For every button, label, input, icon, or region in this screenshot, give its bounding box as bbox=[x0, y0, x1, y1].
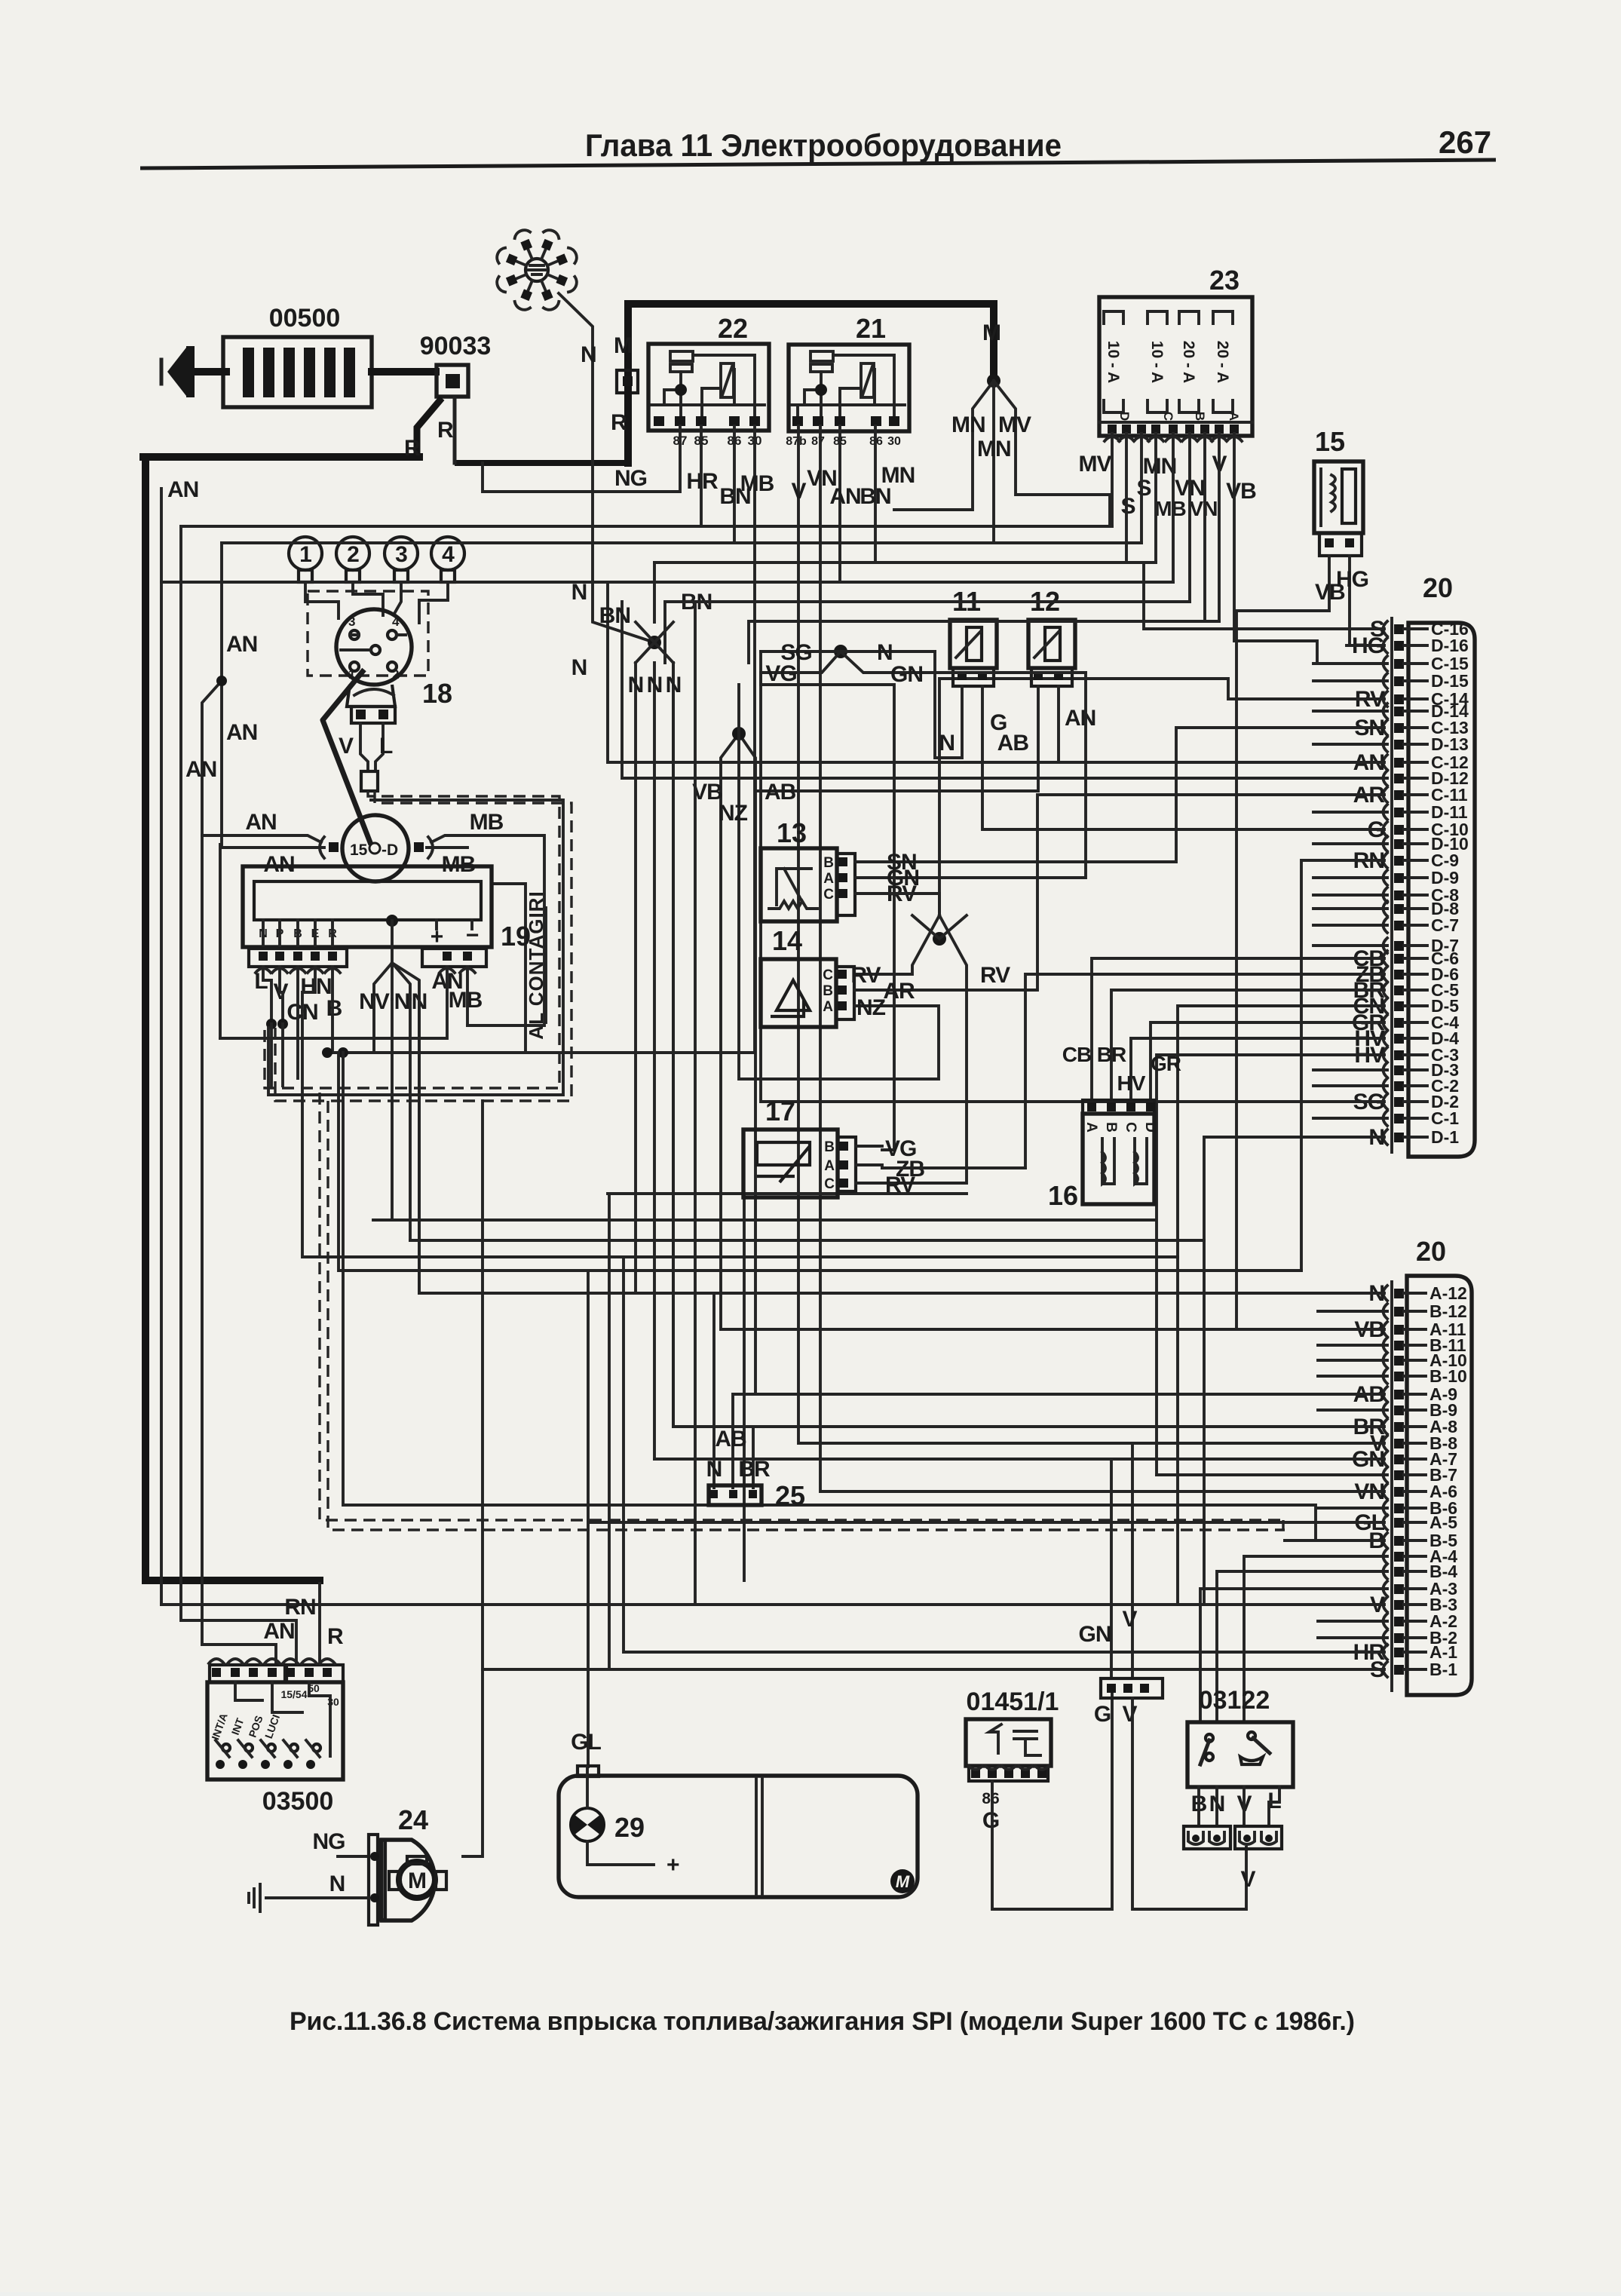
svg-text:B: B bbox=[823, 855, 834, 871]
pin B-9 bbox=[1394, 1405, 1404, 1415]
svg-text:15: 15 bbox=[350, 841, 368, 859]
svg-text:A: A bbox=[824, 1158, 835, 1174]
node BN cross bbox=[648, 636, 661, 649]
svg-text:CB: CB bbox=[1062, 1043, 1091, 1066]
pin A-2 bbox=[1394, 1617, 1404, 1626]
svg-text:90033: 90033 bbox=[420, 332, 492, 360]
pin C-7 bbox=[1394, 921, 1404, 930]
wire V to B-8 bbox=[798, 426, 1384, 1678]
wire N from cap bbox=[559, 293, 654, 642]
svg-text:D-13: D-13 bbox=[1431, 734, 1469, 754]
node RV cross junction bbox=[933, 932, 946, 946]
pin B-3 bbox=[1394, 1600, 1404, 1610]
svg-text:03122: 03122 bbox=[1199, 1686, 1270, 1715]
pin A-8 bbox=[1394, 1422, 1404, 1432]
pin A-9 bbox=[1394, 1390, 1404, 1399]
wire R heavy diagonal bbox=[417, 398, 442, 455]
svg-text:3: 3 bbox=[395, 542, 407, 567]
wire HG to D-16 bbox=[1347, 644, 1384, 647]
svg-text:17: 17 bbox=[765, 1096, 795, 1127]
svg-text:14: 14 bbox=[772, 925, 802, 956]
svg-text:VB: VB bbox=[1315, 580, 1345, 605]
ECU 19 loop box bbox=[220, 845, 526, 1053]
svg-text:N: N bbox=[706, 1457, 722, 1482]
pump symbol bbox=[571, 1808, 604, 1841]
svg-text:L: L bbox=[379, 734, 393, 759]
inline connector 3pin bbox=[1101, 1678, 1163, 1698]
svg-text:MB: MB bbox=[449, 988, 483, 1013]
pin B-11 bbox=[1394, 1341, 1404, 1350]
svg-text:C-7: C-7 bbox=[1431, 915, 1459, 935]
svg-text:16: 16 bbox=[1048, 1180, 1078, 1211]
svg-text:B-1: B-1 bbox=[1429, 1660, 1457, 1679]
fuse output wires bbox=[1111, 434, 1114, 526]
ground for motor bbox=[266, 1896, 369, 1899]
wire G from 11 bbox=[981, 686, 984, 829]
svg-text:30: 30 bbox=[887, 435, 901, 448]
wire HV to D-4 bbox=[1131, 1038, 1384, 1100]
page header rule bbox=[140, 160, 1496, 168]
svg-text:AN: AN bbox=[167, 477, 198, 502]
svg-text:N: N bbox=[394, 989, 410, 1014]
svg-text:MB: MB bbox=[1154, 497, 1186, 520]
pin D-6 bbox=[1394, 970, 1404, 979]
wire MN branch2 bbox=[992, 381, 995, 543]
pin C-3 bbox=[1394, 1050, 1404, 1060]
svg-text:B-10: B-10 bbox=[1429, 1366, 1467, 1386]
wire AN from 12 bbox=[1057, 686, 1060, 762]
03122 connectors bbox=[1184, 1826, 1230, 1849]
pin D-16 bbox=[1394, 641, 1404, 651]
svg-text:V: V bbox=[1240, 1867, 1255, 1892]
wire AN lower bbox=[222, 846, 324, 849]
svg-text:25: 25 bbox=[775, 1480, 805, 1511]
harness row 772 bbox=[161, 426, 1173, 582]
pin D-8 bbox=[1394, 904, 1404, 914]
wire GR to C-4 bbox=[1151, 1022, 1384, 1100]
pin A-4 bbox=[1394, 1552, 1404, 1562]
wire B to B-5 bbox=[1285, 1539, 1384, 1542]
shield solid border bbox=[268, 800, 563, 1095]
svg-text:M: M bbox=[408, 1868, 426, 1893]
svg-text:15/54: 15/54 bbox=[280, 1688, 307, 1700]
fuel tank unit 29 bbox=[559, 1776, 918, 1897]
pin A-12 bbox=[1394, 1289, 1404, 1298]
wire CN to D-5 bbox=[302, 1006, 1384, 1257]
svg-text:M: M bbox=[982, 320, 1000, 345]
svg-text:V: V bbox=[1122, 1607, 1137, 1632]
pin B-1 bbox=[1394, 1665, 1404, 1675]
pin A-6 bbox=[1394, 1487, 1404, 1497]
svg-text:VB: VB bbox=[1226, 479, 1256, 504]
pin C-12 bbox=[1394, 758, 1404, 768]
svg-text:INT: INT bbox=[229, 1716, 247, 1737]
wire AN to C-12 bbox=[608, 582, 1384, 762]
wire pump to 90033 bbox=[372, 368, 436, 376]
svg-text:N: N bbox=[939, 731, 955, 756]
M badge bbox=[890, 1869, 915, 1893]
harness row 720 bbox=[222, 541, 1141, 544]
wire AN left harness bbox=[160, 489, 163, 1605]
svg-text:NG: NG bbox=[614, 466, 647, 491]
wire GN to A-7 bbox=[654, 1459, 1384, 1678]
wire V net bbox=[1132, 1698, 1246, 1909]
pin C-16 bbox=[1394, 624, 1404, 634]
svg-text:C: C bbox=[824, 1176, 835, 1192]
pin D-1 bbox=[1394, 1133, 1404, 1142]
wire SN to C-13 bbox=[881, 728, 1384, 862]
svg-text:N: N bbox=[666, 673, 682, 697]
connector 90033 bbox=[437, 365, 468, 397]
wire BN from relay21-86 bbox=[654, 426, 875, 563]
wire G to C-10 bbox=[983, 828, 1384, 831]
svg-text:B: B bbox=[1103, 1122, 1119, 1133]
svg-text:24: 24 bbox=[398, 1804, 428, 1835]
svg-text:2: 2 bbox=[347, 542, 359, 567]
pin C-15 bbox=[1394, 659, 1404, 669]
svg-text:10 - A: 10 - A bbox=[1105, 341, 1122, 383]
pin A-3 bbox=[1394, 1584, 1404, 1594]
dashed box distributor cap bbox=[308, 591, 428, 676]
svg-text:V: V bbox=[1122, 1702, 1137, 1727]
wire S to B-1 bbox=[483, 1194, 1384, 1669]
spark plug wires bbox=[305, 582, 448, 623]
svg-text:15: 15 bbox=[1315, 426, 1345, 457]
wires 03122 to A-4/B-4/A-3 bbox=[1200, 1556, 1384, 1722]
pin C-1 bbox=[1394, 1114, 1404, 1123]
svg-text:AN: AN bbox=[1065, 706, 1095, 731]
pin B-7 bbox=[1394, 1470, 1404, 1480]
svg-text:10 - A: 10 - A bbox=[1148, 341, 1166, 383]
svg-text:01451/1: 01451/1 bbox=[967, 1688, 1059, 1716]
svg-text:13: 13 bbox=[777, 817, 807, 848]
svg-text:GR: GR bbox=[1151, 1052, 1181, 1075]
svg-text:R: R bbox=[327, 1624, 344, 1649]
harness row 746 bbox=[654, 561, 1156, 564]
svg-text:RV: RV bbox=[850, 963, 881, 988]
pin D-5 bbox=[1394, 1001, 1404, 1011]
wire N to A-12 bbox=[419, 999, 1384, 1293]
pin D-12 bbox=[1394, 774, 1404, 783]
wire VG to 17 bbox=[761, 673, 894, 1150]
heavy bus top M feed bbox=[628, 304, 994, 463]
svg-text:87: 87 bbox=[811, 435, 825, 448]
svg-text:A: A bbox=[823, 871, 834, 887]
pin A-1 bbox=[1394, 1648, 1404, 1657]
wire HG bbox=[1348, 556, 1351, 645]
svg-text:MV: MV bbox=[1079, 452, 1112, 477]
svg-text:4: 4 bbox=[442, 542, 455, 567]
wire CB to C-6 bbox=[1092, 958, 1384, 1100]
wire RN to C-9 bbox=[1301, 860, 1384, 1271]
wire N from 11 bbox=[935, 651, 962, 758]
harness row 798 bbox=[665, 602, 1190, 1605]
svg-text:NZ: NZ bbox=[719, 801, 748, 826]
pin D-2 bbox=[1394, 1097, 1404, 1107]
svg-text:AN: AN bbox=[226, 720, 257, 745]
svg-text:22: 22 bbox=[718, 313, 748, 344]
node SG/N junction bbox=[834, 645, 847, 658]
svg-text:D-15: D-15 bbox=[1431, 671, 1469, 691]
wire AN upper bbox=[202, 835, 321, 842]
svg-text:RV: RV bbox=[980, 963, 1010, 988]
svg-text:NG: NG bbox=[313, 1829, 345, 1854]
pin D-13 bbox=[1394, 740, 1404, 749]
NV/N/N fan bbox=[374, 963, 419, 999]
wire N to 25 bbox=[712, 1293, 716, 1488]
svg-text:C: C bbox=[1161, 412, 1175, 421]
svg-text:C: C bbox=[823, 967, 833, 983]
svg-text:INT/A: INT/A bbox=[209, 1712, 230, 1742]
svg-text:Рис.11.36.8 Система впрыска т: Рис.11.36.8 Система впрыска топлива/зажи… bbox=[290, 2007, 1355, 2036]
svg-text:N: N bbox=[581, 342, 596, 367]
svg-text:D-1: D-1 bbox=[1431, 1127, 1459, 1147]
svg-text:BR: BR bbox=[1097, 1043, 1126, 1066]
MB bus below ECU bbox=[327, 426, 755, 1053]
svg-text:VN: VN bbox=[1190, 497, 1218, 520]
wire D-12 feed bbox=[622, 602, 1313, 778]
wire RV from 13 to cross bbox=[881, 894, 939, 915]
mid verticals bbox=[608, 1194, 1178, 1605]
wire R vertical bbox=[453, 398, 457, 463]
spark plug 1 bbox=[289, 537, 322, 570]
wire NG net bbox=[338, 426, 680, 1856]
svg-text:AB: AB bbox=[997, 731, 1029, 756]
wire AN to switch bbox=[202, 543, 276, 1665]
fuse D bbox=[1104, 311, 1123, 412]
svg-text:D: D bbox=[1142, 1122, 1158, 1133]
svg-text:A: A bbox=[1083, 1122, 1099, 1133]
svg-text:AN: AN bbox=[185, 757, 216, 782]
svg-text:R: R bbox=[404, 436, 421, 461]
pin B-6 bbox=[1394, 1504, 1404, 1513]
pin D-4 bbox=[1394, 1034, 1404, 1044]
pin D-11 bbox=[1394, 808, 1404, 817]
connector 25 bbox=[709, 1485, 761, 1505]
svg-text:AB: AB bbox=[715, 1427, 746, 1451]
svg-text:D: D bbox=[1117, 412, 1132, 421]
harness arrow bbox=[195, 368, 226, 376]
svg-text:B: B bbox=[326, 996, 342, 1021]
heavy supply bus left bbox=[143, 457, 419, 1580]
svg-text:VG: VG bbox=[765, 661, 796, 686]
harness row 698 bbox=[181, 525, 1112, 528]
shield entry box bbox=[361, 771, 378, 791]
svg-text:R: R bbox=[611, 410, 627, 435]
pin C-4 bbox=[1394, 1018, 1404, 1028]
pin B-5 bbox=[1394, 1536, 1404, 1546]
pin D-3 bbox=[1394, 1065, 1404, 1075]
distributor 18 bbox=[336, 609, 412, 685]
svg-text:C: C bbox=[1123, 1122, 1138, 1133]
pin A-7 bbox=[1394, 1455, 1404, 1464]
svg-text:G: G bbox=[982, 1808, 999, 1833]
wire VN to A-6 bbox=[820, 426, 1384, 1491]
svg-text:MN: MN bbox=[951, 412, 985, 437]
svg-text:A-5: A-5 bbox=[1429, 1513, 1457, 1532]
pin D-10 bbox=[1394, 839, 1404, 849]
svg-text:AL CONTAGIRI: AL CONTAGIRI bbox=[525, 891, 547, 1039]
distributor cap icon bbox=[495, 228, 579, 312]
wire V to B-3 bbox=[161, 1603, 1384, 1606]
svg-text:MB: MB bbox=[740, 471, 774, 496]
node VB/AB/NZ junction bbox=[732, 727, 746, 740]
fuse B bbox=[1179, 311, 1199, 412]
pin B-8 bbox=[1394, 1439, 1404, 1448]
svg-text:M: M bbox=[614, 333, 632, 358]
svg-text:AN: AN bbox=[829, 484, 860, 509]
wire RV to C-14 bbox=[939, 679, 1384, 915]
svg-text:LUCI: LUCI bbox=[262, 1713, 282, 1740]
svg-text:20 - A: 20 - A bbox=[1180, 341, 1197, 383]
wire AB to A-9 bbox=[733, 734, 1384, 1488]
wire MB lower bbox=[427, 846, 467, 849]
spark plug 4 bbox=[431, 537, 464, 570]
svg-text:MN: MN bbox=[977, 437, 1011, 461]
wire BN from relay22-86 bbox=[733, 426, 736, 543]
svg-text:20: 20 bbox=[1416, 1236, 1446, 1267]
pin C-9 bbox=[1394, 856, 1404, 866]
svg-text:N: N bbox=[628, 673, 644, 697]
spark plug 3 bbox=[385, 537, 418, 570]
svg-text:29: 29 bbox=[614, 1812, 645, 1843]
coil HT lead bbox=[323, 670, 371, 845]
svg-text:20 - A: 20 - A bbox=[1214, 341, 1231, 383]
svg-text:-D: -D bbox=[382, 841, 398, 859]
svg-text:M: M bbox=[896, 1872, 910, 1891]
pin B-10 bbox=[1394, 1372, 1404, 1381]
svg-text:C-1: C-1 bbox=[1431, 1108, 1459, 1128]
spark plug 2 bbox=[336, 537, 369, 570]
wire SG to D-2 bbox=[761, 651, 1384, 1102]
wire R to 03500 bbox=[318, 1583, 321, 1665]
wire AB from 12 bbox=[755, 686, 1038, 791]
svg-text:MN: MN bbox=[881, 463, 915, 488]
wire B-7 bbox=[1157, 1473, 1384, 1476]
svg-text:87b: 87b bbox=[786, 435, 807, 448]
pin B-12 bbox=[1394, 1307, 1404, 1317]
svg-text:N: N bbox=[329, 1871, 345, 1896]
svg-text:RN: RN bbox=[284, 1595, 315, 1620]
svg-text:B: B bbox=[824, 1139, 835, 1155]
wires below ECU bbox=[263, 967, 283, 1024]
pin B-2 bbox=[1394, 1633, 1404, 1643]
svg-text:N: N bbox=[647, 673, 663, 697]
rotor circle 15-D bbox=[342, 815, 409, 881]
svg-text:S: S bbox=[1136, 476, 1151, 501]
svg-text:86: 86 bbox=[982, 1790, 999, 1807]
svg-text:A: A bbox=[823, 999, 833, 1015]
wire HV to C-3 bbox=[373, 1055, 1384, 1475]
svg-text:20: 20 bbox=[1423, 572, 1453, 603]
pin C-5 bbox=[1394, 986, 1404, 995]
component 00500 fuel pump bbox=[223, 337, 372, 407]
wires V L from 18 bbox=[360, 723, 383, 771]
svg-text:AB: AB bbox=[765, 780, 796, 805]
svg-text:HV: HV bbox=[1117, 1071, 1146, 1095]
svg-text:BR: BR bbox=[738, 1457, 771, 1482]
svg-text:MV: MV bbox=[998, 412, 1031, 437]
svg-text:Глава 11 Электрооборудование: Глава 11 Электрооборудование bbox=[585, 127, 1062, 163]
wire MB upper bbox=[431, 835, 544, 1025]
svg-text:21: 21 bbox=[856, 313, 886, 344]
wire MN branch bbox=[894, 381, 994, 510]
pin C-13 bbox=[1394, 723, 1404, 733]
pin C-10 bbox=[1394, 825, 1404, 835]
svg-text:3: 3 bbox=[348, 615, 355, 629]
svg-text:03500: 03500 bbox=[262, 1787, 334, 1816]
pin A-5 bbox=[1394, 1518, 1404, 1528]
wire BR to C-5 bbox=[1111, 990, 1384, 1100]
svg-text:18: 18 bbox=[422, 678, 452, 709]
pin D-9 bbox=[1394, 873, 1404, 883]
svg-text:AN: AN bbox=[263, 1619, 294, 1644]
pin C-6 bbox=[1394, 954, 1404, 964]
wire BR to A-8 bbox=[673, 663, 1384, 1488]
wire AR to C-11 bbox=[884, 795, 1384, 990]
svg-text:AN: AN bbox=[245, 810, 276, 835]
wire N to D-1 bbox=[410, 1137, 1384, 1240]
svg-text:RV: RV bbox=[885, 1173, 915, 1197]
svg-text:S: S bbox=[1120, 494, 1135, 519]
wire C-15 feed bbox=[1317, 662, 1384, 665]
svg-text:4: 4 bbox=[392, 615, 400, 629]
svg-text:+: + bbox=[666, 1853, 679, 1878]
svg-text:23: 23 bbox=[1209, 265, 1239, 296]
svg-text:V: V bbox=[791, 479, 806, 504]
svg-text:B: B bbox=[1193, 412, 1207, 421]
harness row 824 bbox=[749, 621, 1219, 663]
pin A-10 bbox=[1394, 1356, 1404, 1366]
wire GN to 13 bbox=[881, 673, 1086, 878]
wire HR to A-1 bbox=[624, 1257, 1384, 1652]
svg-text:AN: AN bbox=[226, 632, 257, 657]
wire ZB from 17 bbox=[882, 1166, 1025, 1169]
svg-text:267: 267 bbox=[1439, 124, 1491, 160]
fuse A bbox=[1213, 311, 1233, 412]
svg-text:N: N bbox=[571, 655, 587, 680]
svg-text:00500: 00500 bbox=[269, 304, 341, 333]
wire S to C-16 bbox=[1144, 563, 1384, 629]
svg-text:NZ: NZ bbox=[856, 995, 886, 1020]
heavy link 90033 to M riser bbox=[455, 460, 628, 466]
wire G net bbox=[992, 1694, 1112, 1909]
svg-text:GN: GN bbox=[1079, 1622, 1111, 1647]
svg-text:A-12: A-12 bbox=[1429, 1283, 1467, 1303]
pin D-15 bbox=[1394, 676, 1404, 686]
ECU 19 bbox=[243, 866, 492, 947]
wire GL to A-5 bbox=[588, 1271, 1384, 1767]
wire ZB to D-6 bbox=[882, 974, 1384, 1168]
svg-text:V: V bbox=[339, 734, 354, 759]
svg-text:MB: MB bbox=[470, 810, 504, 835]
svg-text:AR: AR bbox=[883, 979, 915, 1004]
svg-text:C: C bbox=[823, 887, 834, 903]
svg-text:GL: GL bbox=[571, 1730, 601, 1755]
svg-text:G: G bbox=[1094, 1702, 1111, 1727]
shielded cable dashed runs bbox=[265, 791, 559, 1088]
pin C-14 bbox=[1394, 694, 1404, 704]
pin C-2 bbox=[1394, 1081, 1404, 1091]
pin C-11 bbox=[1394, 790, 1404, 800]
AN arrows to rotor bbox=[329, 842, 339, 852]
svg-text:R: R bbox=[437, 418, 454, 443]
svg-text:D-16: D-16 bbox=[1431, 636, 1469, 655]
pin C-8 bbox=[1394, 891, 1404, 900]
pin A-11 bbox=[1394, 1325, 1404, 1335]
pin D-14 bbox=[1394, 707, 1404, 716]
svg-text:BN: BN bbox=[599, 603, 630, 628]
